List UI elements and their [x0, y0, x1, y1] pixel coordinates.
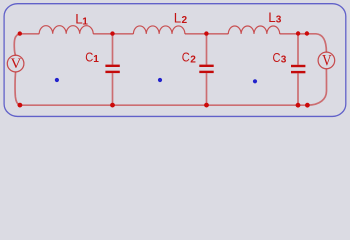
svg-text:L: L [268, 10, 275, 25]
capacitor C2 plates [199, 66, 213, 72]
ground node at VR dot [305, 103, 310, 108]
source VL circle [7, 55, 24, 72]
ground node at C1 dot [110, 103, 115, 108]
node E junction dot [305, 31, 309, 35]
svg-text:2: 2 [190, 54, 196, 65]
capacitor C3 plates [291, 66, 305, 72]
wire node A to source VL top [14, 34, 20, 56]
svg-text:V: V [10, 56, 21, 72]
current probe dot 3 [253, 79, 257, 83]
capacitor C1 plates [105, 66, 119, 72]
inductor L3 [228, 26, 279, 34]
svg-text:L: L [174, 11, 181, 26]
svg-text:1: 1 [82, 16, 88, 27]
svg-text:V: V [322, 52, 332, 69]
source VR circle [318, 52, 335, 69]
wire C2 top lead [206, 34, 208, 65]
wire L3 to node D [280, 33, 298, 35]
wire C1 top lead [112, 34, 114, 65]
node C junction dot [204, 31, 208, 35]
wire L2 to node C [185, 33, 207, 35]
svg-text:C: C [273, 50, 281, 65]
node B junction dot [110, 31, 114, 35]
current probe dot 2 [158, 78, 162, 82]
wire node B to L2 [113, 33, 134, 35]
inductor L2 [133, 26, 185, 34]
wire C3 bottom lead [297, 73, 299, 105]
svg-text:C: C [85, 50, 93, 65]
svg-text:C: C [182, 50, 190, 65]
svg-text:3: 3 [281, 55, 287, 66]
border frame [4, 4, 346, 117]
ground node at C3 dot [296, 103, 301, 108]
ground node at C2 dot [204, 103, 209, 108]
svg-text:1: 1 [93, 54, 99, 65]
wire top rail A to L1 [20, 33, 39, 35]
wire C3 top lead [297, 34, 299, 65]
node D junction dot [296, 31, 300, 35]
current probe dot 1 [55, 78, 59, 82]
inductor L1 [39, 26, 93, 34]
svg-text:2: 2 [182, 15, 188, 26]
wire L1 to node B [93, 33, 112, 35]
wire node C to L3 [207, 33, 229, 35]
wire C2 bottom lead [206, 73, 208, 105]
wire source VR bottom to ground rail [307, 69, 326, 106]
wire C1 bottom lead [112, 73, 114, 105]
node A junction dot [18, 31, 22, 35]
ground node at VL dot [18, 103, 23, 108]
wire node D to node E [298, 33, 307, 35]
wire source VL bottom to ground rail [15, 72, 20, 105]
wire node E to source VR top [307, 34, 327, 52]
svg-text:3: 3 [276, 15, 282, 26]
wire bottom ground rail [20, 104, 308, 106]
